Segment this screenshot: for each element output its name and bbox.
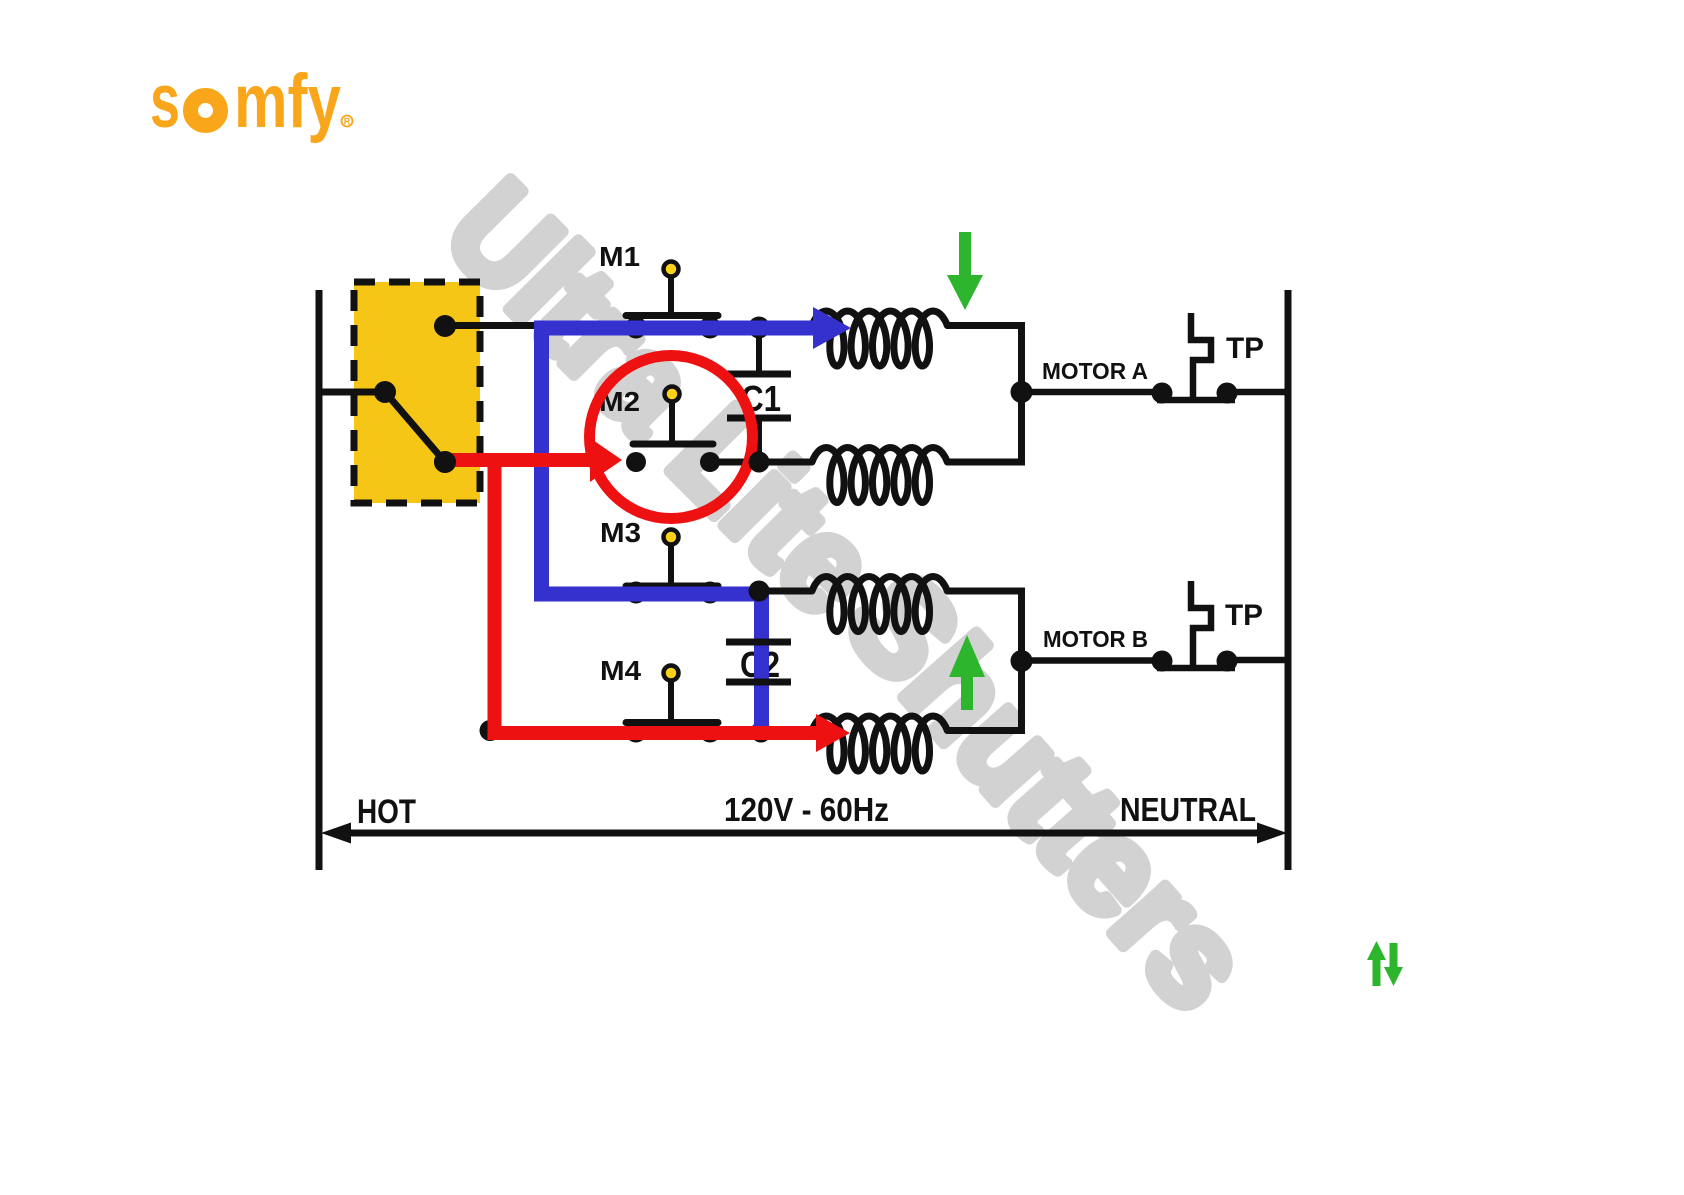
svg-text:R: R	[344, 117, 351, 127]
svg-text:120V - 60Hz: 120V - 60Hz	[724, 791, 889, 828]
svg-text:MOTOR B: MOTOR B	[1043, 626, 1148, 652]
svg-text:TP: TP	[1225, 599, 1263, 632]
svg-text:M3: M3	[600, 517, 641, 548]
svg-text:mfy: mfy	[234, 59, 341, 144]
svg-text:M1: M1	[599, 241, 640, 272]
svg-text:TP: TP	[1226, 332, 1264, 365]
svg-text:HOT: HOT	[357, 793, 416, 831]
svg-text:M4: M4	[600, 655, 641, 686]
svg-text:MOTOR A: MOTOR A	[1042, 358, 1148, 384]
svg-text:NEUTRAL: NEUTRAL	[1120, 791, 1256, 828]
svg-text:s: s	[150, 59, 180, 144]
